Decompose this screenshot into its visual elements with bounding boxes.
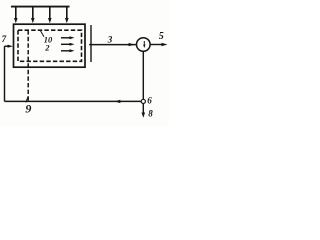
pipe 3 to pump [89,43,136,46]
svg-text:3: 3 [107,34,113,44]
svg-text:8: 8 [148,108,153,118]
flow arrow middle [61,43,75,46]
node 6 circle [141,99,145,103]
flow arrow bottom [61,49,75,52]
leader for label 10 [41,31,45,37]
svg-text:9: 9 [25,102,31,116]
dashed drain line 9 [27,30,29,101]
pump 4 circle [137,38,151,52]
recirculation left riser [4,46,6,101]
feed header manifold line [11,6,70,8]
feed drop pipe 4 [65,7,69,24]
vessel outer wall [14,24,86,67]
inlet pipe 7 [5,45,14,48]
recirculation bottom pipe [5,100,142,103]
svg-text:2: 2 [44,42,50,52]
svg-text:6: 6 [147,96,152,106]
svg-text:5: 5 [159,31,164,42]
feed drop pipe 1 [14,7,18,24]
leader for label 9 [26,97,28,103]
outlet pipe 5 [150,43,167,46]
outlet grid bar [90,25,92,62]
down pipe from pump [142,51,144,99]
feed drop pipe 2 [31,7,35,24]
inner dashed chamber [18,30,82,61]
flow arrow top [61,36,75,39]
drain arrow 8 [142,104,146,118]
pump internal arrow [143,41,145,48]
svg-text:7: 7 [2,34,7,44]
feed drop pipe 3 [48,7,52,24]
